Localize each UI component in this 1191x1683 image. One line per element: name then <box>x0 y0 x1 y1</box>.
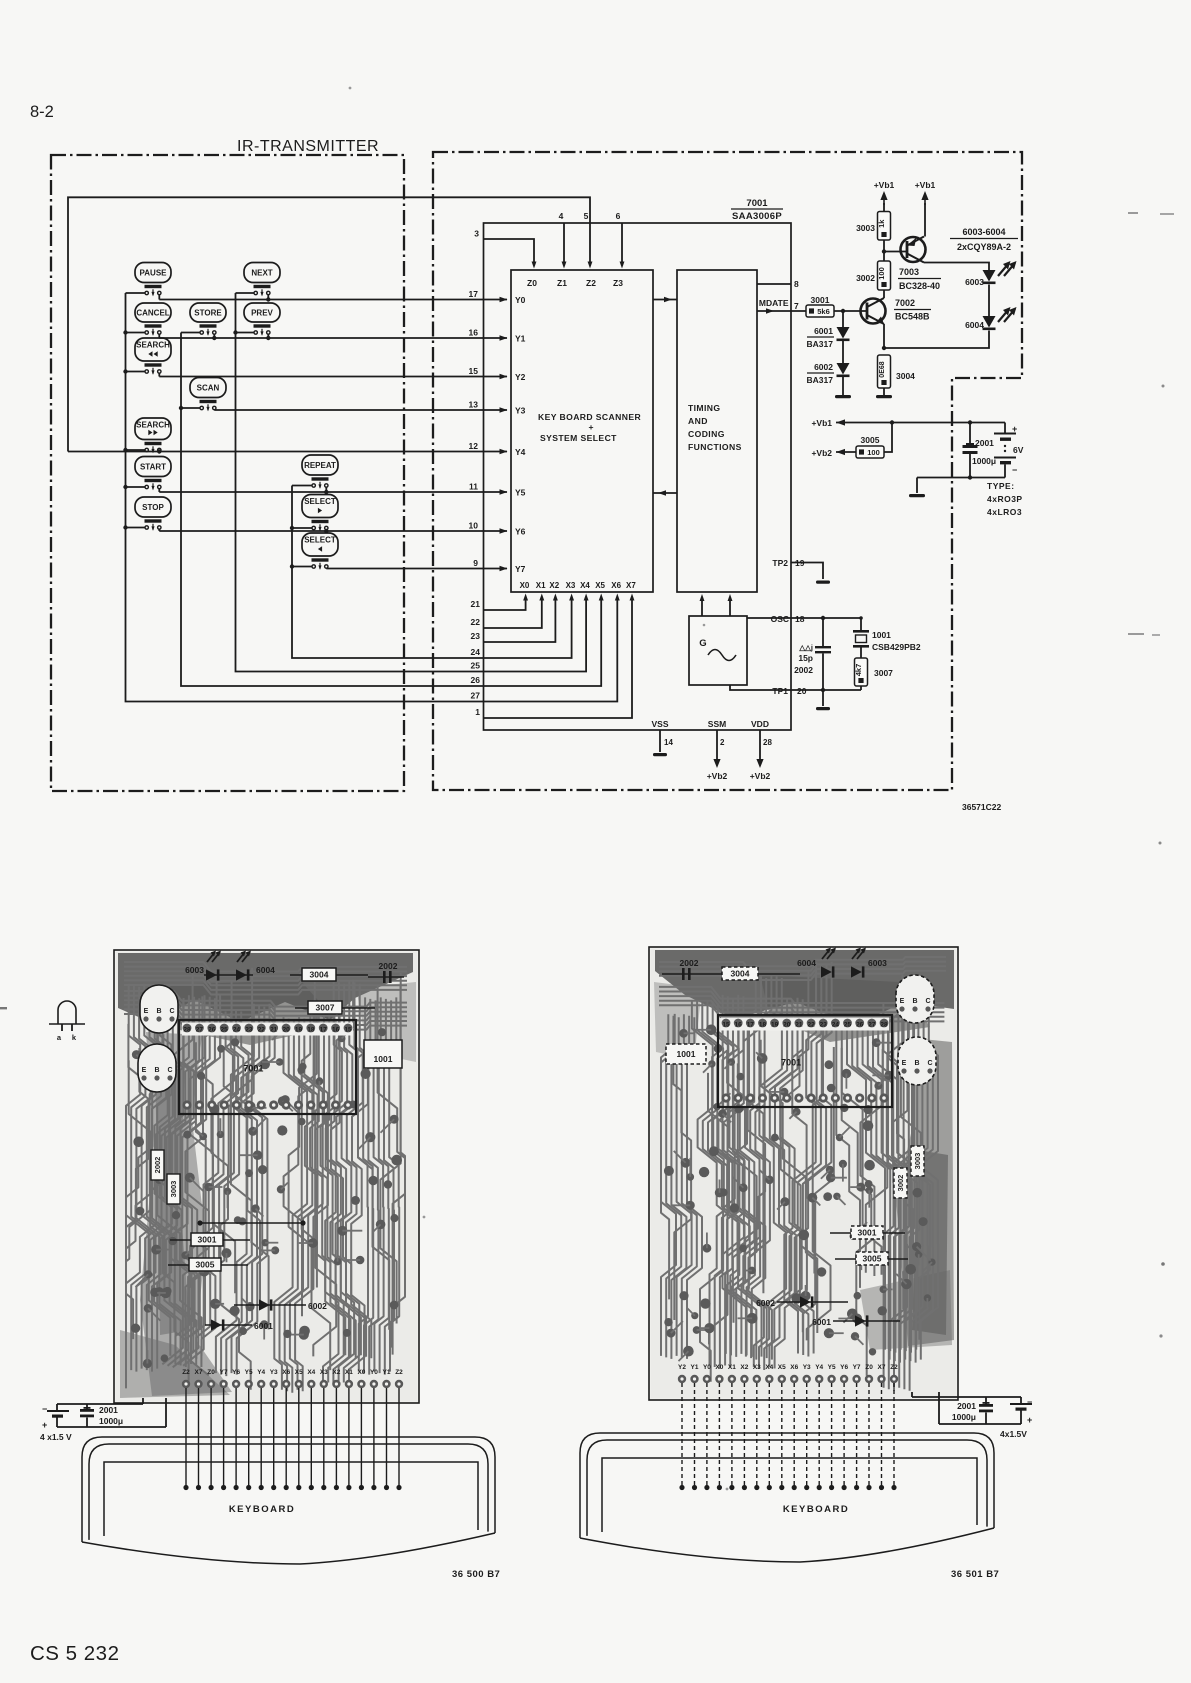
svg-text:18: 18 <box>307 1027 315 1034</box>
resistor 3004 marker <box>290 968 368 981</box>
pushbutton switch SEARCH (ffwd) <box>126 418 172 453</box>
svg-text:12: 12 <box>469 441 479 451</box>
svg-text:14: 14 <box>664 738 673 747</box>
svg-text:Y4: Y4 <box>815 1364 823 1371</box>
pin label Y4 <box>515 447 526 457</box>
svg-text:24: 24 <box>471 647 481 657</box>
trace pattern <box>124 962 407 1393</box>
pushbutton switch CANCEL <box>126 303 172 338</box>
transistor 7003 footprint <box>898 1037 936 1085</box>
pin label Y0 <box>515 295 526 305</box>
svg-text:3004: 3004 <box>896 371 915 381</box>
svg-text:SCAN: SCAN <box>197 384 220 393</box>
svg-text:26: 26 <box>856 1022 864 1029</box>
svg-text:21: 21 <box>270 1027 278 1034</box>
svg-text:SELECT: SELECT <box>304 497 336 506</box>
wire X5 rail (column 2 buttons) <box>179 333 484 687</box>
wire row Y0 to pin 17 <box>159 289 507 302</box>
svg-text:Y2: Y2 <box>678 1364 686 1371</box>
svg-text:SEARCH: SEARCH <box>136 421 170 430</box>
wire row Y1 to pin 16 <box>159 328 507 341</box>
svg-text:3007: 3007 <box>874 668 893 678</box>
drawing number 36571C22 <box>962 802 1002 812</box>
svg-text:6004: 6004 <box>256 965 275 975</box>
svg-text:18: 18 <box>759 1022 767 1029</box>
diode 6002 BA317 <box>807 341 850 385</box>
svg-text:6003-6004: 6003-6004 <box>962 227 1005 237</box>
svg-text:100: 100 <box>877 267 886 280</box>
resistor 3003 vertical marker <box>167 1174 180 1204</box>
capacitor 2001 1000u (right) <box>952 1397 993 1424</box>
svg-text:3004: 3004 <box>310 970 329 980</box>
IC U7001 outer boundary box <box>484 223 792 730</box>
svg-text:−: − <box>1012 465 1017 475</box>
pin label Y3 <box>515 406 526 416</box>
pushbutton switch PREV <box>236 303 281 338</box>
svg-text:Z2: Z2 <box>586 278 596 288</box>
svg-text:Y0: Y0 <box>370 1369 378 1376</box>
pin 8 wire <box>757 279 799 289</box>
wire row Y2 to pin 15 <box>159 366 507 379</box>
svg-text:3001: 3001 <box>198 1235 217 1245</box>
svg-text:3002: 3002 <box>896 1175 905 1192</box>
svg-text:X0: X0 <box>357 1369 365 1376</box>
svg-text:24: 24 <box>233 1027 241 1034</box>
svg-text:KEY BOARD SCANNER: KEY BOARD SCANNER <box>538 412 641 422</box>
svg-text:25: 25 <box>844 1022 852 1029</box>
svg-text:5k6: 5k6 <box>817 307 830 316</box>
svg-text:BA317: BA317 <box>807 375 834 385</box>
svg-text:STORE: STORE <box>194 309 222 318</box>
svg-text:X3: X3 <box>566 581 576 590</box>
svg-text:SELECT: SELECT <box>304 536 336 545</box>
resistor 3002 vertical marker <box>151 1150 164 1180</box>
svg-text:AND: AND <box>688 416 708 426</box>
svg-text:Y3: Y3 <box>270 1369 278 1376</box>
svg-text:25: 25 <box>471 661 481 671</box>
svg-text:X0: X0 <box>715 1364 723 1371</box>
pin SSM 2 to +Vb2 <box>707 719 728 781</box>
svg-text:26: 26 <box>471 675 481 685</box>
svg-text:SYSTEM SELECT: SYSTEM SELECT <box>540 433 617 443</box>
resistor 3003 vertical marker <box>911 1146 924 1176</box>
svg-text:Z3: Z3 <box>613 278 623 288</box>
svg-text:6003: 6003 <box>868 958 887 968</box>
svg-text:NEXT: NEXT <box>251 269 272 278</box>
LED 6004 marker <box>236 951 275 981</box>
resistor 3005 marker <box>168 1258 248 1271</box>
transistor 7002 footprint <box>896 975 934 1023</box>
svg-text:27: 27 <box>471 691 481 701</box>
svg-text:22: 22 <box>258 1027 266 1034</box>
svg-text:6002: 6002 <box>814 362 833 372</box>
svg-text:BA317: BA317 <box>807 339 834 349</box>
svg-text:X3: X3 <box>320 1369 328 1376</box>
pin label Y6 <box>515 527 526 537</box>
ground return wire <box>909 475 1005 497</box>
transistor Q7002 BC548B <box>861 298 932 324</box>
KEYBOARD label <box>783 1504 849 1515</box>
svg-text:3001: 3001 <box>811 295 830 305</box>
svg-text:Z0: Z0 <box>207 1369 215 1376</box>
svg-text:X0: X0 <box>520 581 530 590</box>
wire loop from pin 5 (Z2) to Y4 row <box>68 197 592 451</box>
svg-text:23: 23 <box>820 1022 828 1029</box>
svg-text:1001: 1001 <box>677 1049 696 1059</box>
transmitter enclosure dash-dot border (right box) <box>433 152 1022 790</box>
svg-text:Z0: Z0 <box>527 278 537 288</box>
svg-text:C: C <box>167 1067 172 1074</box>
battery type note <box>987 481 1023 517</box>
pin label Z1 <box>557 278 567 288</box>
svg-text:G: G <box>699 638 706 649</box>
board number 36 501 B7 <box>951 1569 999 1580</box>
svg-text:7: 7 <box>794 301 799 311</box>
svg-text:+: + <box>42 1420 47 1430</box>
svg-text:VDD: VDD <box>751 719 769 729</box>
svg-text:X6: X6 <box>611 581 621 590</box>
svg-text:X5: X5 <box>778 1364 786 1371</box>
svg-text:+: + <box>1012 424 1017 434</box>
keyboard connection wires <box>679 1383 896 1490</box>
svg-text:23: 23 <box>471 631 481 641</box>
svg-text:28: 28 <box>763 738 772 747</box>
ground on TP1 rail <box>816 690 830 710</box>
svg-text:+: + <box>1027 1415 1032 1425</box>
svg-text:PREV: PREV <box>251 309 273 318</box>
keyboard scanner block <box>511 270 653 592</box>
svg-text:1001: 1001 <box>872 630 891 640</box>
svg-text:X4: X4 <box>307 1369 315 1376</box>
wire 7002 collector to 3002 <box>883 290 885 298</box>
svg-text:2001: 2001 <box>99 1405 118 1415</box>
battery 4x1.5V (left) <box>40 1398 166 1442</box>
resistor 3002 vertical marker <box>894 1168 907 1198</box>
wire timing to scanner (return) <box>653 490 677 496</box>
svg-text:6001: 6001 <box>812 1317 831 1327</box>
resistor 3003 1k <box>856 212 890 241</box>
svg-text:1000μ: 1000μ <box>972 456 996 466</box>
pin VDD 28 to +Vb2 <box>750 719 773 781</box>
battery 6V <box>994 423 1024 478</box>
svg-text:6002: 6002 <box>756 1298 775 1308</box>
svg-text:15: 15 <box>344 1027 352 1034</box>
pin 5 label <box>584 211 589 221</box>
svg-text:Y4: Y4 <box>515 447 526 457</box>
svg-text:4xRO3P: 4xRO3P <box>987 494 1023 504</box>
wire pin 24 to X3 <box>471 581 576 658</box>
svg-text:9: 9 <box>473 558 478 568</box>
pin 6 wire to Z3 <box>616 211 625 269</box>
svg-text:BC328-40: BC328-40 <box>899 281 940 291</box>
svg-text:2002: 2002 <box>153 1157 162 1174</box>
svg-text:E: E <box>900 998 905 1005</box>
svg-text:Y2: Y2 <box>515 372 526 382</box>
pushbutton switch STORE <box>181 303 226 338</box>
LED reference symbol (top left) <box>49 1001 85 1042</box>
copper pour areas <box>118 953 416 1398</box>
svg-text:36 501 B7: 36 501 B7 <box>951 1569 999 1580</box>
svg-text:16: 16 <box>332 1027 340 1034</box>
svg-text:25: 25 <box>221 1027 229 1034</box>
LED 6004 <box>965 307 1016 330</box>
svg-text:CODING: CODING <box>688 429 725 439</box>
pushbutton switch SCAN <box>181 378 226 412</box>
label 7001 SAA3006P <box>731 198 783 222</box>
svg-text:Y7: Y7 <box>853 1364 861 1371</box>
svg-text:X1: X1 <box>728 1364 736 1371</box>
pin VSS 14 with ground <box>651 719 673 756</box>
keyboard tray outline <box>580 1433 994 1562</box>
svg-text:7001: 7001 <box>746 198 768 209</box>
resonator 1001 marker <box>666 1044 706 1064</box>
svg-text:3003: 3003 <box>913 1153 922 1170</box>
svg-text:Z0: Z0 <box>865 1364 873 1371</box>
svg-text:E: E <box>142 1067 147 1074</box>
svg-text:C: C <box>169 1008 174 1015</box>
LED 6004 marker <box>797 948 836 978</box>
svg-text:Z2: Z2 <box>890 1364 898 1371</box>
svg-text:X1: X1 <box>345 1369 353 1376</box>
svg-text:+Vb1: +Vb1 <box>874 180 895 190</box>
bottom connector pads Z2..Z2 <box>182 1369 403 1388</box>
svg-text:21: 21 <box>471 599 481 609</box>
svg-text:X6: X6 <box>790 1364 798 1371</box>
wire LED return to emitter node <box>882 331 989 351</box>
net +Vb2 with resistor 3005 100 <box>811 423 892 459</box>
svg-text:6001: 6001 <box>254 1321 273 1331</box>
svg-text:SAA3006P: SAA3006P <box>732 211 782 222</box>
capacitor 2002 15p <box>794 618 831 690</box>
svg-text:+Vb1: +Vb1 <box>811 418 832 428</box>
wire pin 27 to X6 <box>471 581 622 702</box>
wire row Y3 to pin 13 <box>214 400 507 413</box>
resistor 3001 marker <box>170 1233 250 1246</box>
pin 3 wire to Z0 <box>474 229 536 269</box>
svg-text:4k7: 4k7 <box>854 664 863 677</box>
title IR-TRANSMITTER <box>237 138 379 155</box>
keyboard connection wires <box>183 1388 401 1490</box>
svg-text:Y3: Y3 <box>515 406 526 416</box>
svg-text:−: − <box>1027 1397 1032 1407</box>
svg-text:3005: 3005 <box>863 1254 882 1264</box>
board tint <box>651 949 956 1398</box>
PCB board 36501 outline <box>649 947 958 1400</box>
svg-text:16: 16 <box>735 1022 743 1029</box>
pushbutton switch PAUSE <box>126 263 172 300</box>
svg-text:X7: X7 <box>626 581 636 590</box>
svg-text:7003: 7003 <box>899 267 919 277</box>
svg-text:22: 22 <box>471 617 481 627</box>
svg-text:Z2: Z2 <box>182 1369 190 1376</box>
svg-text:2001: 2001 <box>975 438 994 448</box>
svg-text:6V: 6V <box>1013 445 1024 455</box>
svg-text:10: 10 <box>469 521 479 531</box>
jumper wire marker <box>197 1220 305 1225</box>
svg-text:Y7: Y7 <box>220 1369 228 1376</box>
svg-text:11: 11 <box>469 482 478 492</box>
wire X3 rail (column 4 buttons) <box>290 486 484 659</box>
svg-text:5: 5 <box>584 211 589 221</box>
svg-text:17: 17 <box>747 1022 755 1029</box>
wire 3001 to 7002 base, node <box>834 309 867 313</box>
svg-text:6004: 6004 <box>965 320 984 330</box>
svg-text:Z2: Z2 <box>395 1369 403 1376</box>
crystal resonator 1001 CSB429PB2 <box>853 618 921 658</box>
svg-text:KEYBOARD: KEYBOARD <box>783 1504 849 1515</box>
svg-text:3: 3 <box>474 229 479 239</box>
svg-text:X7: X7 <box>195 1369 203 1376</box>
MDATE pin 7 wire <box>757 298 806 314</box>
svg-text:TP2: TP2 <box>772 558 788 568</box>
svg-text:+Vb2: +Vb2 <box>750 771 771 781</box>
svg-text:STOP: STOP <box>142 503 164 512</box>
diode 6001 marker <box>205 1319 273 1331</box>
svg-text:16: 16 <box>469 328 479 338</box>
wire X6 rail (column 1 buttons) <box>123 293 484 702</box>
svg-text:15: 15 <box>722 1022 730 1029</box>
svg-text:3003: 3003 <box>169 1181 178 1198</box>
svg-text:X4: X4 <box>765 1364 773 1371</box>
svg-text:MDATE: MDATE <box>759 298 789 308</box>
pin label Y7 <box>515 564 526 574</box>
svg-text:26: 26 <box>208 1027 216 1034</box>
svg-text:6001: 6001 <box>814 326 833 336</box>
KEYBOARD label <box>229 1504 295 1515</box>
LED 6003 marker <box>185 951 253 981</box>
wire row Y7 to pin 9 <box>326 558 507 571</box>
svg-text:+: + <box>588 422 593 432</box>
capacitor 2002 marker (top right) <box>368 961 404 983</box>
LED 6003 marker <box>851 948 887 978</box>
wire oscillator to timing block (2 lines) <box>700 594 733 616</box>
svg-text:REPEAT: REPEAT <box>304 461 336 470</box>
svg-text:7001: 7001 <box>243 1064 263 1074</box>
svg-text:7002: 7002 <box>895 298 915 308</box>
svg-text:15: 15 <box>469 366 479 376</box>
svg-text:X2: X2 <box>549 581 559 590</box>
svg-text:1000μ: 1000μ <box>952 1412 976 1422</box>
svg-text:22: 22 <box>807 1022 815 1029</box>
svg-text:19: 19 <box>295 1027 303 1034</box>
svg-text:3001: 3001 <box>858 1228 877 1238</box>
pushbutton switch REPEAT <box>292 455 338 492</box>
svg-text:+Vb2: +Vb2 <box>707 771 728 781</box>
svg-text:PAUSE: PAUSE <box>140 269 168 278</box>
capacitor 2001 1000u (left) <box>80 1404 123 1427</box>
wire pin 22 to X1 <box>471 581 547 628</box>
svg-text:Y5: Y5 <box>515 488 526 498</box>
page number 8-2 <box>30 103 54 121</box>
battery 4x1.5V (right) <box>912 1392 1032 1439</box>
svg-text:CANCEL: CANCEL <box>136 309 169 318</box>
svg-text:Y1: Y1 <box>383 1369 391 1376</box>
svg-text:TIMING: TIMING <box>688 403 720 413</box>
keyboard tray outline <box>82 1437 495 1564</box>
svg-text:+Vb1: +Vb1 <box>915 180 936 190</box>
svg-text:1: 1 <box>475 707 480 717</box>
svg-text:X2: X2 <box>740 1364 748 1371</box>
svg-text:27: 27 <box>868 1022 876 1029</box>
svg-text:X4: X4 <box>580 581 590 590</box>
svg-text:6004: 6004 <box>797 958 816 968</box>
svg-text:OSC: OSC <box>771 614 789 624</box>
svg-text:3005: 3005 <box>861 435 880 445</box>
svg-text:C: C <box>925 998 930 1005</box>
trace pattern <box>659 957 946 1391</box>
svg-text:+Vb2: +Vb2 <box>811 448 832 458</box>
svg-text:TYPE:: TYPE: <box>987 481 1015 491</box>
resistor 3004 0E68 <box>878 355 916 388</box>
svg-text:20: 20 <box>783 1022 791 1029</box>
svg-text:X1: X1 <box>536 581 546 590</box>
label 6003-6004 2xCQY89A-2 <box>950 227 1018 252</box>
IC socket 7001 <box>718 1015 892 1107</box>
ground below 6002 <box>835 377 851 398</box>
wire pin 23 to X2 <box>471 581 560 642</box>
svg-text:VSS: VSS <box>651 719 668 729</box>
svg-text:6002: 6002 <box>308 1301 327 1311</box>
capacitor 2001 1000u <box>963 423 997 478</box>
svg-text:0E68: 0E68 <box>879 361 886 377</box>
svg-text:20: 20 <box>797 686 807 696</box>
svg-text:IR-TRANSMITTER: IR-TRANSMITTER <box>237 138 379 155</box>
svg-text:8: 8 <box>794 279 799 289</box>
svg-text:B: B <box>912 998 917 1005</box>
supply +Vb1 above 7003 <box>915 180 936 237</box>
svg-text:Y0: Y0 <box>703 1364 711 1371</box>
diode 6002 marker <box>234 1299 327 1311</box>
svg-text:E: E <box>144 1008 149 1015</box>
svg-text:2002: 2002 <box>379 961 398 971</box>
diode 6002 marker <box>756 1296 848 1308</box>
wire LED chain <box>988 285 990 317</box>
pushbutton switch STOP <box>126 497 172 531</box>
svg-text:28: 28 <box>183 1027 191 1034</box>
capacitor 2002 marker <box>662 958 712 980</box>
svg-text:4x1.5V: 4x1.5V <box>1000 1429 1027 1439</box>
svg-text:21: 21 <box>795 1022 803 1029</box>
svg-text:Y6: Y6 <box>840 1364 848 1371</box>
node 3002/3003/7003 base <box>882 240 907 261</box>
LED 6003 <box>965 261 1016 287</box>
pushbutton switch NEXT <box>236 263 281 300</box>
copper pour areas <box>654 950 954 1350</box>
svg-text:Y0: Y0 <box>515 295 526 305</box>
svg-text:28: 28 <box>880 1022 888 1029</box>
diode 6001 marker <box>812 1315 900 1327</box>
svg-text:24: 24 <box>832 1022 840 1029</box>
wire 7003 collector to LEDs <box>924 263 989 271</box>
svg-text:36571C22: 36571C22 <box>962 802 1002 812</box>
svg-text:BC548B: BC548B <box>895 312 930 322</box>
svg-text:Y6: Y6 <box>515 527 526 537</box>
svg-text:1001: 1001 <box>374 1054 393 1064</box>
net +Vb1 rail <box>811 418 1005 428</box>
wire pin 1 to X7 <box>475 581 636 718</box>
svg-text:6003: 6003 <box>185 965 204 975</box>
svg-text:B: B <box>156 1008 161 1015</box>
svg-text:−: − <box>42 1404 47 1414</box>
pin label Z2 <box>586 278 596 288</box>
svg-text:Y3: Y3 <box>803 1364 811 1371</box>
ground below 3004 <box>876 388 892 398</box>
svg-text:3003: 3003 <box>856 223 875 233</box>
svg-text:6: 6 <box>616 211 621 221</box>
pushbutton switch SEARCH (rew) <box>126 338 172 377</box>
timing and coding block <box>677 270 757 592</box>
transistor 7002 footprint <box>140 985 178 1033</box>
